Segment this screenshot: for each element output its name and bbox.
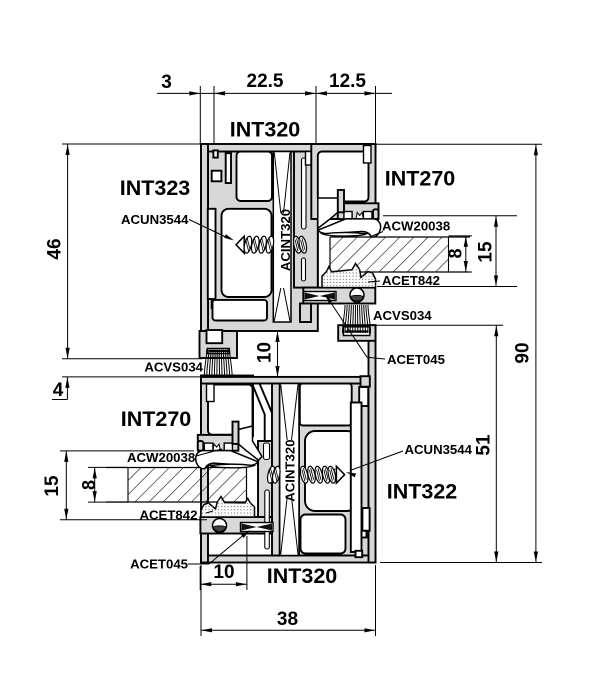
svg-text:INT270: INT270 [385,167,456,191]
svg-text:22.5: 22.5 [247,71,284,92]
svg-text:15: 15 [476,241,497,263]
svg-text:INT320: INT320 [230,118,301,142]
svg-text:ACVS034: ACVS034 [144,360,203,375]
svg-text:46: 46 [45,238,66,259]
svg-text:8: 8 [79,480,99,490]
svg-text:ACW20038: ACW20038 [127,450,195,465]
svg-text:INT320: INT320 [267,564,338,588]
svg-text:3: 3 [161,72,172,93]
svg-text:ACET842: ACET842 [382,273,440,288]
svg-text:90: 90 [513,342,534,363]
svg-text:12.5: 12.5 [329,71,366,92]
svg-text:4: 4 [53,380,64,401]
svg-text:ACW20038: ACW20038 [382,219,450,234]
svg-text:ACUN3544: ACUN3544 [405,442,473,457]
svg-text:INT270: INT270 [121,407,192,431]
svg-text:51: 51 [474,434,495,456]
svg-text:ACET045: ACET045 [387,352,445,367]
svg-text:ACINT320: ACINT320 [278,209,293,271]
svg-text:INT323: INT323 [120,176,191,200]
svg-text:INT322: INT322 [387,480,458,504]
svg-text:ACET045: ACET045 [130,557,188,572]
svg-text:8: 8 [446,248,466,258]
svg-text:10: 10 [255,342,276,363]
svg-text:38: 38 [277,609,298,630]
svg-text:ACUN3544: ACUN3544 [121,212,189,227]
svg-text:ACET842: ACET842 [140,507,198,522]
svg-text:ACINT320: ACINT320 [282,439,297,501]
svg-text:ACVS034: ACVS034 [373,308,432,323]
svg-text:15: 15 [42,475,63,497]
svg-text:10: 10 [213,562,234,583]
